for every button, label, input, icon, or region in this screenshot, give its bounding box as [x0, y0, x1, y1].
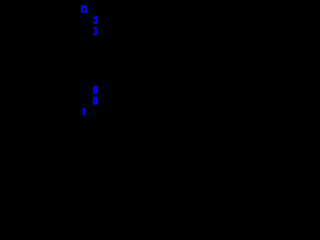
edge label "1" (bottom transition): [82, 108, 86, 115]
edge label "1" (upper transition b): [93, 27, 98, 35]
edge label "1" (upper transition a): [93, 16, 98, 24]
edge label "0" (lower transition b): [93, 97, 98, 105]
edge label "0" (top transition): [81, 5, 87, 13]
edge label "0" (lower transition a): [93, 86, 98, 94]
